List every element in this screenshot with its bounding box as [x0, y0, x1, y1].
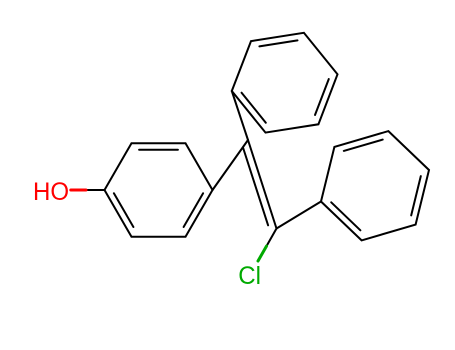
bond C1 to upper phenyl ring: [232, 91, 248, 140]
bond C2 to right phenyl ring: [277, 202, 322, 229]
upper ring double bond inner line (lower-left edge): [242, 93, 266, 123]
phenol ring double bond inner line (lower-right edge): [184, 193, 204, 227]
O-C bond black half: [87, 189, 105, 191]
right ring double bond inner line (top edge): [344, 140, 383, 151]
O-C bond red half: [71, 189, 86, 192]
C1=C2 double bond inner line: [243, 148, 268, 226]
right ring double bond inner line (right edge): [411, 176, 421, 215]
right phenyl ring outline: [321, 131, 429, 240]
upper ring double bond inner line (right edge): [315, 79, 329, 115]
upper ring double bond inner line (top edge): [259, 40, 297, 46]
svg-text:Cl: Cl: [238, 263, 261, 291]
bond phenol ring to C1: [213, 140, 249, 190]
C2-Cl bond green half: [258, 246, 267, 261]
phenol ring outline: [105, 143, 213, 237]
upper phenyl ring outline: [232, 33, 338, 133]
C2-Cl bond black half: [267, 229, 277, 247]
right ring double bond inner line (bottom-left edge): [331, 202, 360, 230]
C1=C2 double bond main line: [248, 140, 277, 229]
svg-text:HO: HO: [33, 178, 69, 206]
phenol ring double bond inner line (top edge): [139, 149, 178, 151]
phenol ring double bond inner line (lower-left edge): [114, 193, 133, 227]
